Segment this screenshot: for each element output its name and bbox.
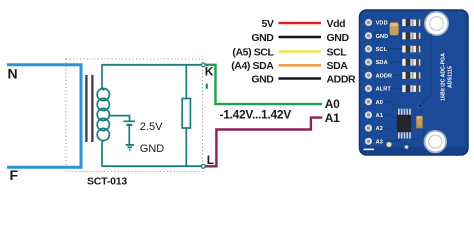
IC U2 ADS1115 chip [397,109,411,139]
svg-text:SCL: SCL [327,46,348,58]
mounting hole bottom [424,131,446,153]
svg-text:GND: GND [251,32,274,44]
ground [126,145,134,150]
current marker i [206,84,208,89]
svg-text:GND: GND [376,34,389,40]
svg-text:K: K [205,65,214,79]
node L [201,164,205,168]
resistor R1 burden [185,65,187,166]
mounting hole top [425,12,448,35]
capacitor C2 tan right of IC [416,116,422,128]
svg-text:(A5) SCL: (A5) SCL [232,46,274,58]
svg-text:N: N [8,66,18,82]
svg-text:5V: 5V [261,18,273,30]
wire A1 (purple) from L [205,118,322,167]
pin header holes and labels [365,19,392,145]
svg-text:A3: A3 [376,139,383,145]
via [418,104,422,108]
svg-text:ALRT: ALRT [376,87,392,93]
capacitor C1 tan [390,22,399,35]
transformer T1 core [85,75,87,142]
svg-text:16Bit I2C ADC-PGA: 16Bit I2C ADC-PGA [441,53,447,101]
svg-text:ADS1115: ADS1115 [448,66,454,88]
svg-text:SCT-013: SCT-013 [87,176,127,188]
wire A0 (green) from K [205,65,322,104]
svg-text:A1: A1 [376,113,383,119]
svg-text:ADDR: ADDR [376,73,393,79]
wire GND to GND (black) [279,36,322,38]
svg-text:-1.42V...1.42V: -1.42V...1.42V [220,107,292,121]
svg-text:SDA: SDA [327,60,349,72]
dashed enclosure SCT-013 [66,59,203,172]
svg-text:GND: GND [140,143,165,155]
wire SDA (orange) [279,64,322,66]
wire GND to ADDR (black) [279,77,322,79]
module U1 ADS1115 board [360,10,469,155]
node K [201,63,205,67]
wire primary vertical through CT core [80,63,83,169]
svg-text:A0: A0 [376,100,383,106]
wire 5V to Vdd (red) [279,22,322,24]
via bottom 1 [387,142,392,147]
wire N (mains primary top) [7,63,81,66]
svg-text:A1: A1 [325,111,340,125]
svg-text:2.5V: 2.5V [140,121,163,133]
svg-text:L: L [207,153,214,167]
svg-text:A0: A0 [325,97,340,111]
wire secondary bottom rail [102,165,204,167]
svg-text:SCL: SCL [376,47,388,53]
svg-text:GND: GND [327,32,350,44]
pcb traces [372,23,431,145]
silk line under A3 [364,149,375,151]
svg-text:ADDR: ADDR [327,73,357,85]
svg-text:SDA: SDA [376,60,388,66]
transformer T1 secondary winding [97,65,109,166]
wire SCL (yellow) [279,50,322,52]
svg-text:F: F [10,167,19,183]
smd resistor pairs rows 1-6 [402,19,420,92]
via bottom 2 [405,145,408,148]
wire F (mains primary bottom) [7,166,81,169]
svg-text:VDD: VDD [376,21,388,27]
wire secondary top rail [102,64,204,66]
wire center tap to bias [109,116,129,121]
svg-text:GND: GND [251,73,274,85]
svg-text:A2: A2 [376,126,383,132]
battery V1 2.5V [123,121,135,144]
svg-text:Vdd: Vdd [327,18,346,30]
svg-text:(A4) SDA: (A4) SDA [231,60,274,72]
